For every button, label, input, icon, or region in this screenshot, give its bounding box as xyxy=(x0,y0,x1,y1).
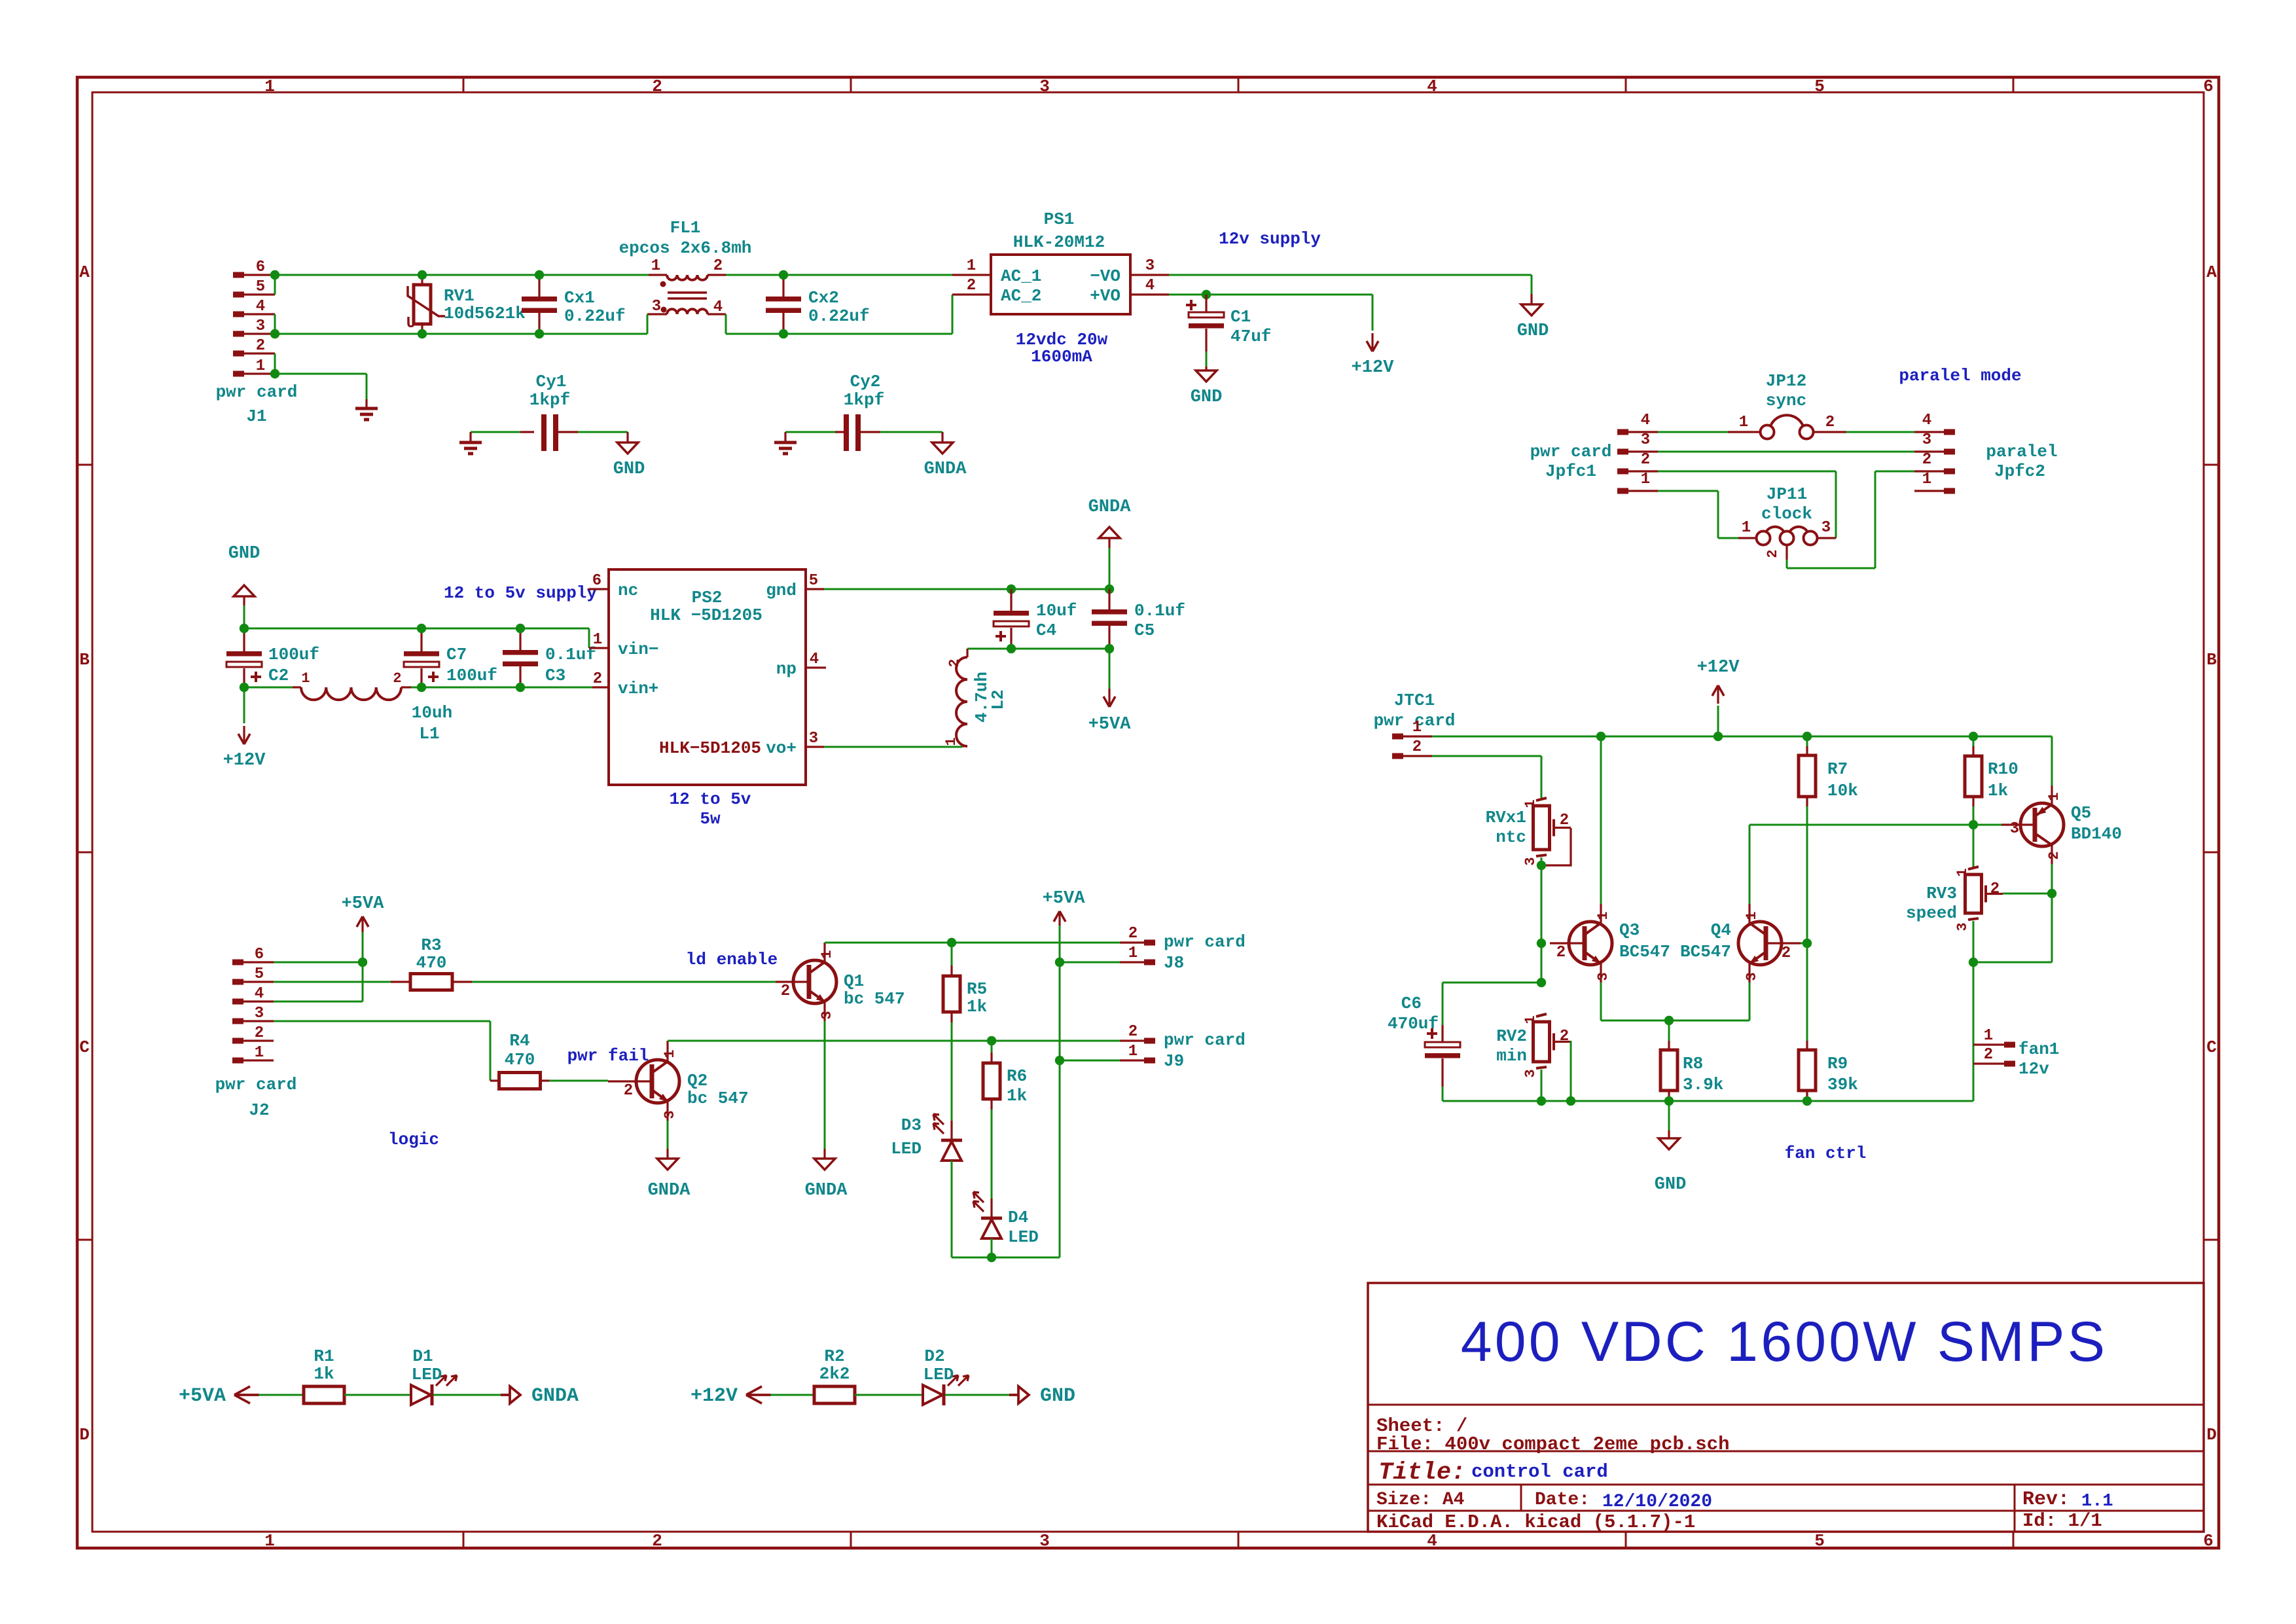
junction Q4 base / R7-R9 column xyxy=(1803,939,1812,948)
svg-text:RVx1: RVx1 xyxy=(1486,808,1526,827)
svg-text:pwr card: pwr card xyxy=(1164,932,1246,952)
wire J2 pin4 xyxy=(274,1001,363,1003)
connector Jpfc2 paralel pins 1-4 xyxy=(1914,412,2058,494)
capacitor C3 0.1uf xyxy=(503,628,596,687)
note 12 to 5v / 5w xyxy=(670,789,751,829)
wire +5VA to J2 pin6 xyxy=(362,932,364,962)
diode D4 LED xyxy=(973,1192,1039,1247)
svg-text:6: 6 xyxy=(2203,1531,2214,1551)
connector J8 pwr card pins 1-2 xyxy=(1120,925,1246,973)
wire Jpfc1 pin4 to JP12 xyxy=(1658,431,1728,433)
svg-text:4: 4 xyxy=(713,298,723,316)
svg-text:4: 4 xyxy=(255,985,264,1003)
global label GND bottom xyxy=(1018,1386,1029,1403)
svg-text:1: 1 xyxy=(256,357,265,375)
wire R3 to Q1 base xyxy=(472,981,776,983)
wire R5 column down to D3 xyxy=(951,1041,953,1121)
transistor Q1 bc 547 xyxy=(776,943,905,1021)
svg-text:U: U xyxy=(406,315,416,333)
wire J1 pin1 to earth xyxy=(275,374,367,399)
global label +12V bottom xyxy=(746,1386,771,1403)
svg-text:Cx1: Cx1 xyxy=(564,288,595,308)
svg-text:RV3: RV3 xyxy=(1926,884,1957,903)
svg-text:C5: C5 xyxy=(1134,621,1155,640)
svg-text:C2: C2 xyxy=(268,666,289,685)
svg-text:pwr card: pwr card xyxy=(216,382,298,402)
diode D2 LED xyxy=(923,1346,969,1405)
svg-text:+12V: +12V xyxy=(1697,658,1740,677)
earth ground symbol left of Cy2 xyxy=(774,432,797,454)
transistor Q4 BC547 xyxy=(1680,904,1801,983)
svg-text:R3: R3 xyxy=(421,935,441,955)
svg-text:nc: nc xyxy=(618,581,638,600)
svg-text:3: 3 xyxy=(1744,972,1760,981)
svg-text:2: 2 xyxy=(1984,1046,1993,1064)
wire +12V to R2 xyxy=(770,1394,814,1396)
wire FL1 pin4 drop xyxy=(725,314,727,334)
capacitor Cy2 1kpf xyxy=(835,372,884,451)
svg-text:C: C xyxy=(2206,1038,2217,1057)
svg-text:2: 2 xyxy=(713,257,723,275)
svg-text:Id: 1/1: Id: 1/1 xyxy=(2022,1510,2102,1532)
capacitor Cy1 1kpf xyxy=(520,372,578,451)
wire R2 to D2 xyxy=(855,1394,923,1396)
svg-text:470uf: 470uf xyxy=(1388,1014,1439,1034)
svg-text:12 to 5v: 12 to 5v xyxy=(670,789,751,809)
diode D3 LED xyxy=(891,1114,962,1161)
svg-text:3.9k: 3.9k xyxy=(1683,1075,1723,1094)
capacitor Cx2 0.22uf xyxy=(766,275,870,334)
junction RV2 top / C6 xyxy=(1537,978,1546,987)
wire Q3 emitter drop xyxy=(1600,983,1602,1020)
svg-text:Rev:: Rev: xyxy=(2022,1489,2070,1511)
svg-text:ld enable: ld enable xyxy=(686,950,778,969)
svg-text:1: 1 xyxy=(1922,471,1931,488)
svg-text:HLK-20M12: HLK-20M12 xyxy=(1013,232,1105,252)
svg-text:3: 3 xyxy=(662,1110,678,1119)
svg-text:1: 1 xyxy=(1128,945,1138,962)
svg-text:3: 3 xyxy=(1922,431,1931,449)
title block outline xyxy=(1368,1283,2204,1532)
svg-text:control card: control card xyxy=(1471,1461,1608,1483)
wire JP11 pin2 to Jpfc2 pin2 xyxy=(1787,471,1914,568)
svg-text:PS1: PS1 xyxy=(1044,209,1075,229)
wire Q2 emitter to GNDA xyxy=(667,1121,669,1149)
svg-text:logic: logic xyxy=(388,1130,439,1149)
junction bottom rail RV2 wiper xyxy=(1566,1096,1575,1106)
wire Q4 base node to R9 xyxy=(1806,943,1808,1041)
resistor R6 1k xyxy=(983,1041,1027,1110)
resistor R7 10k xyxy=(1799,736,1858,806)
junction C2 top xyxy=(240,624,249,633)
junction C5 bottom xyxy=(1105,644,1114,653)
svg-text:12 to 5v supply: 12 to 5v supply xyxy=(444,583,597,603)
resistor R3 470 xyxy=(391,935,472,990)
svg-text:R4: R4 xyxy=(509,1031,529,1051)
power symbol GND fan xyxy=(1655,1130,1687,1195)
svg-text:FL1: FL1 xyxy=(670,218,701,238)
svg-text:3: 3 xyxy=(1821,519,1831,537)
svg-text:+5VA: +5VA xyxy=(342,894,385,914)
junction C1 top xyxy=(1202,290,1211,299)
svg-text:2: 2 xyxy=(593,670,602,688)
junction Cx1 top xyxy=(535,270,544,280)
connector Jpfc1 pwr card pins 1-4 xyxy=(1530,412,1658,494)
svg-text:2: 2 xyxy=(967,277,976,295)
svg-text:2: 2 xyxy=(1825,414,1835,431)
svg-text:6: 6 xyxy=(255,946,264,964)
capacitor C4 10uf xyxy=(994,589,1077,649)
wire JP12 to Jpfc2 pin4 xyxy=(1846,431,1914,433)
wire J8 row2 xyxy=(952,942,1120,944)
wire +12V arrow stem xyxy=(1717,706,1719,736)
junction Q5 collector / RV3 wiper xyxy=(2047,889,2056,898)
svg-text:3: 3 xyxy=(1039,1531,1050,1551)
junction C3 bottom xyxy=(516,683,525,692)
svg-text:pwr card: pwr card xyxy=(215,1075,297,1094)
svg-text:+12V: +12V xyxy=(1352,358,1395,378)
junction RV1 bottom xyxy=(418,329,427,338)
wire Q4 base to column xyxy=(1801,943,1807,945)
junction J1 pin3 xyxy=(270,329,279,338)
svg-text:1: 1 xyxy=(943,737,960,746)
svg-text:1: 1 xyxy=(1739,414,1748,431)
wire +12V drop xyxy=(1372,295,1374,331)
wire GNDA riser xyxy=(1109,548,1111,589)
junction C4 top xyxy=(1007,585,1016,594)
junction bottom rail R9 xyxy=(1803,1096,1812,1106)
svg-text:Size: A4: Size: A4 xyxy=(1376,1490,1464,1510)
svg-text:3: 3 xyxy=(255,1005,264,1022)
svg-text:L2: L2 xyxy=(988,689,1008,710)
svg-text:L1: L1 xyxy=(419,724,439,744)
junction C7 bottom xyxy=(417,683,426,692)
wire C2 to L1 xyxy=(244,687,293,689)
capacitor C7 100uf xyxy=(404,628,497,687)
svg-text:vin−: vin− xyxy=(618,640,658,659)
svg-text:470: 470 xyxy=(416,953,447,973)
svg-text:1: 1 xyxy=(593,631,602,649)
svg-text:3: 3 xyxy=(1522,1069,1539,1077)
svg-text:4: 4 xyxy=(810,651,819,668)
svg-text:1: 1 xyxy=(1984,1027,1993,1045)
svg-text:GNDA: GNDA xyxy=(805,1181,848,1200)
wire J1 pin6 to pin5 xyxy=(274,275,276,295)
junction bottom rail RV2 pin3 xyxy=(1537,1096,1546,1106)
svg-text:Cy1: Cy1 xyxy=(536,372,567,391)
svg-text:470: 470 xyxy=(505,1050,535,1070)
svg-text:1: 1 xyxy=(1412,719,1422,736)
svg-text:Q5: Q5 xyxy=(2071,803,2091,823)
wire D3 to bottom xyxy=(951,1161,953,1257)
svg-text:2: 2 xyxy=(1560,812,1569,829)
wire J1 pin2 to pin1 xyxy=(274,353,276,374)
svg-text:JP11: JP11 xyxy=(1767,484,1807,504)
svg-text:bc 547: bc 547 xyxy=(687,1089,749,1108)
svg-text:np: np xyxy=(776,659,797,679)
wire fan node to Q5 collector column xyxy=(1973,962,2052,964)
svg-text:BD140: BD140 xyxy=(2071,824,2122,844)
wire Q4 collector to Q5 base xyxy=(1749,824,2001,826)
svg-text:4: 4 xyxy=(256,298,265,316)
svg-text:BC547: BC547 xyxy=(1680,942,1731,962)
svg-text:39k: 39k xyxy=(1827,1075,1858,1094)
wire Q2 collector to J9 row xyxy=(668,1040,1120,1042)
svg-text:D3: D3 xyxy=(901,1115,922,1135)
svg-text:3: 3 xyxy=(652,298,661,316)
svg-text:+5VA: +5VA xyxy=(179,1385,226,1407)
wire LED bottom rail xyxy=(952,1257,1060,1259)
svg-text:GND: GND xyxy=(613,460,645,479)
power symbol GNDA above C5 xyxy=(1088,497,1132,548)
connector J9 pwr card pins 1-2 xyxy=(1120,1023,1246,1071)
power module PS2 HLK-5D1205 xyxy=(588,569,826,785)
capacitor C6 470uf xyxy=(1388,983,1541,1101)
connector fan1 12v pins 1-2 xyxy=(1973,1027,2059,1079)
varistor RV1 10d5621k xyxy=(406,275,526,334)
svg-text:C: C xyxy=(79,1038,90,1057)
global label GNDA bottom left xyxy=(510,1386,520,1403)
svg-text:epcos 2x6.8mh: epcos 2x6.8mh xyxy=(619,238,752,258)
resistor R4 470 xyxy=(490,1031,549,1089)
svg-text:47uf: 47uf xyxy=(1230,327,1271,346)
wire Jpfc1 pin2 to JP11 pin3 xyxy=(1658,471,1836,538)
svg-text:GND: GND xyxy=(1040,1385,1075,1407)
wire FL1 to Cx2 top xyxy=(726,274,952,276)
wire RV2 pin3 drop xyxy=(1541,1070,1543,1101)
power symbol GND above C2 xyxy=(228,544,260,605)
global label +5VA bottom left xyxy=(234,1386,259,1403)
wire R10 to Q5 base node xyxy=(1973,806,1975,825)
svg-text:4: 4 xyxy=(1427,77,1437,96)
svg-text:1: 1 xyxy=(1742,519,1751,537)
svg-text:3: 3 xyxy=(1039,77,1050,96)
svg-text:LED: LED xyxy=(891,1139,922,1159)
svg-text:GNDA: GNDA xyxy=(648,1181,691,1200)
svg-text:LED: LED xyxy=(412,1365,442,1384)
svg-text:1: 1 xyxy=(1522,799,1539,808)
trimmer RVx1 ntc xyxy=(1486,798,1571,866)
wire +5VA down to pin4 row xyxy=(362,962,364,1001)
svg-text:1: 1 xyxy=(264,77,275,96)
svg-text:HLK−5D1205: HLK−5D1205 xyxy=(659,738,761,758)
svg-text:3: 3 xyxy=(819,1011,835,1019)
junction Q5 base / R10 / RV3 xyxy=(1969,820,1978,829)
svg-text:1: 1 xyxy=(662,1049,678,1058)
wire PS2 vo+ to L2 xyxy=(824,746,962,748)
svg-text:gnd: gnd xyxy=(766,581,797,600)
capacitor Cx1 0.22uf xyxy=(522,275,626,334)
junction Cx2 bottom xyxy=(779,329,788,338)
resistor R5 1k xyxy=(943,943,987,1022)
svg-text:12/10/2020: 12/10/2020 xyxy=(1602,1492,1712,1512)
wire Jpfc1 pin3 to Jpfc2 pin3 xyxy=(1658,451,1914,453)
wire Jpfc1 pin1 to JP11 pin1 xyxy=(1658,491,1738,538)
svg-text:4: 4 xyxy=(1922,412,1931,429)
svg-text:0.22uf: 0.22uf xyxy=(808,306,870,326)
svg-text:R1: R1 xyxy=(314,1346,334,1366)
svg-text:clock: clock xyxy=(1761,504,1812,524)
wire D2 to GND xyxy=(945,1394,1009,1396)
svg-text:+12V: +12V xyxy=(223,751,266,770)
power symbol +5VA below C5 xyxy=(1108,689,1110,704)
svg-text:RV1: RV1 xyxy=(444,286,475,306)
svg-text:A: A xyxy=(2206,262,2217,282)
power symbol +12V top xyxy=(1371,333,1373,349)
svg-text:JTC1: JTC1 xyxy=(1394,691,1435,710)
wire +5VA drop xyxy=(1109,649,1111,689)
wire Q4 collector riser xyxy=(1749,825,1751,904)
power module PS1 HLK-20M12 xyxy=(952,209,1169,314)
svg-text:1: 1 xyxy=(1744,911,1760,920)
svg-text:+5VA: +5VA xyxy=(1043,889,1086,909)
svg-text:1: 1 xyxy=(967,257,976,275)
svg-text:1k: 1k xyxy=(1988,781,2008,801)
resistor R10 1k xyxy=(1965,736,2018,806)
svg-text:HLK −5D1205: HLK −5D1205 xyxy=(650,605,762,625)
svg-text:2: 2 xyxy=(946,659,963,667)
svg-text:GND: GND xyxy=(1517,321,1549,341)
wire FL1 pin3 drop xyxy=(647,314,649,334)
svg-text:1k: 1k xyxy=(1007,1086,1027,1106)
wire Q5 collector column down xyxy=(2051,893,2053,962)
svg-text:fan ctrl: fan ctrl xyxy=(1785,1144,1867,1163)
svg-text:6: 6 xyxy=(592,572,601,590)
svg-text:2: 2 xyxy=(652,1531,662,1551)
capacitor C1 47uf xyxy=(1186,295,1271,352)
diode D1 LED xyxy=(411,1346,457,1405)
svg-text:RV2: RV2 xyxy=(1496,1026,1527,1046)
svg-text:1: 1 xyxy=(1522,1015,1539,1024)
svg-text:100uf: 100uf xyxy=(268,645,319,664)
junction J1 pin6 xyxy=(270,270,279,280)
power symbol +12V fan xyxy=(1717,688,1719,704)
wire PS1 +VO to C1 xyxy=(1169,294,1372,296)
svg-text:C4: C4 xyxy=(1036,621,1056,640)
svg-text:KiCad E.D.A. kicad (5.1.7)-1: KiCad E.D.A. kicad (5.1.7)-1 xyxy=(1376,1511,1695,1533)
svg-text:3: 3 xyxy=(2010,820,2019,838)
svg-text:JP12: JP12 xyxy=(1766,371,1806,391)
svg-text:1k: 1k xyxy=(967,997,987,1017)
svg-text:2: 2 xyxy=(1922,451,1931,469)
svg-text:1: 1 xyxy=(2046,792,2062,801)
junction fan rail +12V xyxy=(1713,732,1723,741)
wire AC_2 riser xyxy=(952,295,954,334)
svg-text:J1: J1 xyxy=(246,406,266,426)
svg-text:C1: C1 xyxy=(1230,307,1251,327)
power symbol GND below C1 xyxy=(1191,367,1223,407)
wire C1 to GND xyxy=(1206,352,1208,367)
svg-text:2: 2 xyxy=(1556,944,1566,962)
svg-text:Cx2: Cx2 xyxy=(808,288,839,308)
junction C7 top xyxy=(417,624,426,633)
wire R7 to Q4 base xyxy=(1806,806,1808,943)
power symbol GND right of Cy1 xyxy=(613,432,645,479)
wire J8 pin1 row xyxy=(1060,962,1120,964)
svg-text:D2: D2 xyxy=(924,1346,944,1366)
wire J2 pin6 xyxy=(274,962,363,964)
svg-text:R2: R2 xyxy=(824,1346,844,1366)
svg-text:R8: R8 xyxy=(1683,1054,1703,1074)
svg-text:3: 3 xyxy=(1145,257,1155,275)
svg-text:1: 1 xyxy=(1595,911,1611,920)
border column labels 1-6 top xyxy=(264,77,2214,96)
transistor Q5 BD140 xyxy=(2001,785,2122,864)
svg-text:1.1: 1.1 xyxy=(2081,1492,2113,1511)
wire Cy2 right to GNDA xyxy=(880,431,942,433)
svg-text:C7: C7 xyxy=(446,645,467,664)
svg-text:1k: 1k xyxy=(314,1364,334,1384)
junction J8 pin1 column xyxy=(1055,958,1064,967)
svg-text:3: 3 xyxy=(809,730,818,748)
svg-text:3: 3 xyxy=(1954,922,1971,931)
earth ground symbol left of Cy1 xyxy=(459,432,482,454)
svg-text:10d5621k: 10d5621k xyxy=(444,304,526,323)
svg-text:B: B xyxy=(2206,650,2217,670)
svg-text:400 VDC 1600W SMPS: 400 VDC 1600W SMPS xyxy=(1461,1310,2108,1373)
svg-text:GNDA: GNDA xyxy=(531,1385,579,1407)
svg-text:Q2: Q2 xyxy=(687,1071,708,1091)
svg-text:5w: 5w xyxy=(700,809,721,829)
svg-text:6: 6 xyxy=(256,259,265,276)
wire RV3 pin3 drop xyxy=(1973,921,1975,962)
svg-text:2: 2 xyxy=(1765,549,1781,558)
border column labels 1-6 bottom xyxy=(264,1531,2214,1551)
wire R4 to Q2 base xyxy=(549,1080,608,1082)
svg-text:10uf: 10uf xyxy=(1036,601,1077,621)
power symbol +5VA right column xyxy=(1043,889,1086,926)
wire D4 to bottom xyxy=(991,1238,993,1257)
svg-text:J8: J8 xyxy=(1164,953,1184,973)
svg-text:GND: GND xyxy=(1191,388,1223,407)
power symbol +5VA above J2 xyxy=(342,894,385,932)
svg-text:Cy2: Cy2 xyxy=(850,372,881,391)
svg-text:Jpfc2: Jpfc2 xyxy=(1994,461,2045,481)
jumper JP12 sync xyxy=(1728,371,1846,439)
title block row lines xyxy=(1368,1405,2204,1532)
wire Cy1 right to GND xyxy=(578,431,628,433)
wire Q3 collector riser xyxy=(1600,736,1602,904)
svg-text:J9: J9 xyxy=(1164,1051,1184,1071)
wire Q5 collector drop xyxy=(2051,864,2053,893)
wire Q4 emitter drop xyxy=(1749,983,1751,1020)
svg-text:vin+: vin+ xyxy=(618,679,658,698)
svg-text:10k: 10k xyxy=(1827,781,1858,801)
svg-text:GNDA: GNDA xyxy=(1088,497,1132,517)
svg-text:2: 2 xyxy=(1412,738,1422,756)
svg-text:B: B xyxy=(79,650,90,670)
svg-text:1: 1 xyxy=(255,1044,264,1062)
power symbol GNDA below Q1 xyxy=(805,1149,848,1200)
wire PS2 gnd rail xyxy=(824,588,1109,590)
wire J9 pin1 row xyxy=(1060,1060,1120,1062)
wire D1 to GNDA xyxy=(433,1394,501,1396)
transistor Q3 BC547 xyxy=(1550,904,1670,983)
junction R6 top xyxy=(987,1036,996,1045)
wire fan bottom rail xyxy=(1443,1100,1973,1102)
wire Cy1 left to earth xyxy=(471,431,520,433)
svg-text:speed: speed xyxy=(1906,903,1957,923)
svg-text:bc 547: bc 547 xyxy=(844,989,905,1009)
svg-text:1: 1 xyxy=(1954,868,1971,876)
svg-text:100uf: 100uf xyxy=(446,666,497,685)
svg-text:10uh: 10uh xyxy=(412,703,452,723)
svg-text:D1: D1 xyxy=(412,1346,433,1366)
svg-text:D: D xyxy=(2206,1425,2217,1445)
svg-text:1: 1 xyxy=(651,257,660,275)
svg-text:2: 2 xyxy=(2046,851,2062,859)
transistor Q2 bc 547 xyxy=(608,1041,749,1121)
